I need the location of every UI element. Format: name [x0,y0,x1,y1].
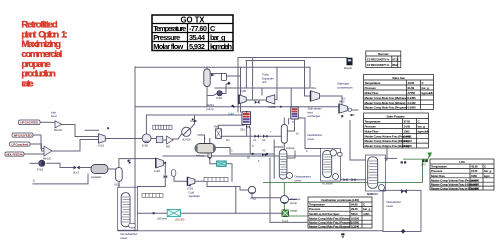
deethanizer condenser [330,150,336,156]
svg-text:C2 RECOVERY %: C2 RECOVERY % [367,63,390,67]
svg-text:Molar Flow: Molar Flow [431,174,446,178]
wire: depropanizer overhead riser [273,140,275,178]
svg-text:Filter: Filter [214,125,219,129]
propane to storage box (green) [282,210,289,217]
reflux pump [217,91,222,96]
svg-text:0.9466: 0.9466 [408,96,417,100]
svg-text:29.30: 29.30 [351,207,358,211]
debutanizer bottoms junction diamond [401,229,406,234]
reflux accumulator pot [221,74,226,81]
feed pump P-101 [39,160,45,166]
wire: left stabilizer feed line [33,174,88,184]
svg-text:1393: 1393 [404,130,410,134]
wire: cooler outlet train [151,138,157,140]
svg-text:Temperature: Temperature [431,165,447,169]
svg-text:530.0: 530.0 [351,212,358,216]
svg-text:Inlet sep: Inlet sep [196,154,205,158]
svg-text:Sales Gas: Sales Gas [392,76,405,80]
table: Sales Propane (right) [364,113,430,148]
svg-text:1060: 1060 [471,174,477,178]
svg-text:88.2: 88.2 [392,63,398,67]
svg-text:kgmole/h: kgmole/h [422,91,434,95]
letdown valve left [74,166,80,170]
wire: reflux pump discharge [222,84,229,94]
wire: feed pump to valve [47,163,74,167]
wire: bottom long product run [118,230,383,232]
svg-text:Temperature: Temperature [365,81,381,85]
molecular sieve filter [216,129,222,139]
tee block [156,136,162,142]
wire: cold separator vapour recycle riser [249,128,251,154]
sales gas compressor 1 [311,91,320,101]
C3 splitter column [368,157,378,189]
svg-text:61.69: 61.69 [408,86,415,90]
demethanizer tower column [121,193,130,227]
svg-text:14.00: 14.00 [404,125,411,129]
wire: reflux column bottom to main liquid header [206,86,208,107]
wire: booster compressor discharge to side exchanger [275,67,277,99]
svg-text:bar_g: bar_g [484,169,492,173]
air cooler strip [153,125,172,129]
svg-text:Deethanizer condensate (LiDI): Deethanizer condensate (LiDI) [321,198,358,202]
wire: condensate header to pump riser [235,187,237,214]
svg-text:C3 RECOVERY %: C3 RECOVERY % [367,57,390,61]
stream label box gas feed 3 [10,142,31,146]
stream label box gas feed 2 [12,133,33,137]
deethanizer transfer valve 2 [352,178,356,181]
depropanizer column [279,150,287,180]
wire: valve outlet to cold feed header [146,115,194,134]
svg-text:0.3240: 0.3240 [351,224,360,228]
svg-text:K-103: K-103 [187,187,194,191]
C3 splitter reboiler [379,185,385,191]
deethanizer reboiler [333,174,339,180]
LPG product arrow (green) [428,153,433,158]
wire: pump transfer (green) [289,215,309,217]
stream anchor below condensate table [341,233,344,235]
svg-text:VLV-100: VLV-100 [182,138,191,142]
svg-text:bar_g: bar_g [418,125,426,129]
table: recoveries (top right) [366,51,401,68]
svg-text:tower: tower [295,178,302,182]
LPG product flags (dark green) [422,160,425,163]
svg-text:LPG: LPG [459,160,465,164]
svg-text:Mix-101: Mix-101 [43,157,52,161]
reflux column (absorber) [204,69,210,87]
cold box LNG exchanger E-101 [242,112,251,125]
demethanizer reboiler pot [129,223,136,228]
svg-text:pump: pump [290,201,297,205]
svg-text:m3/h: m3/h [363,212,370,216]
svg-text:Mix-100: Mix-100 [54,128,63,132]
mixer MIX-101 [44,146,52,156]
valve at column top [211,74,215,77]
debutanizer sub-flowsheet box [383,190,421,231]
recycle compressor K-103 [187,177,195,186]
svg-text:K-101: K-101 [98,144,105,148]
wire: valve to flash drum [80,167,91,169]
wire: KO drum liquid to demethanizer [118,181,120,187]
valve on separator vapour line [262,153,267,157]
wire: mixer 1 outlet to recompressor [62,125,99,137]
wire: cold compressor discharge loop [138,163,166,187]
svg-text:tower: tower [121,236,128,240]
LTS exchanger (teal small) [217,161,227,166]
wire: LNG exchanger outlet long run [180,212,282,214]
wire: side exchanger outlet to deethanizer feed [299,118,321,149]
svg-text:pump: pump [207,107,214,111]
svg-text:storage: storage [290,209,298,213]
wire: feed box 2 to mixer 2 [33,135,44,149]
wire: LPG rundown link [385,157,397,159]
wire: inlet separator liquid to LTS exchanger [210,160,217,163]
svg-text:tower: tower [387,204,394,208]
svg-text:Cold: Cold [228,112,234,116]
svg-text:Cold sep: Cold sep [286,146,295,150]
svg-text:Splitter: Splitter [367,192,374,196]
svg-text:Molar flow: Molar flow [153,42,183,51]
svg-text:exchanger: exchanger [308,114,321,118]
stream label box NGL feed [19,120,41,125]
C3 splitter sub-flowsheet box [366,155,386,191]
svg-text:Pressure: Pressure [365,125,377,129]
wire: secondary header to sales gas compressor drop [246,61,311,97]
svg-text:feed: feed [51,114,57,118]
svg-text:NGL FEED IN: NGL FEED IN [6,152,22,156]
shaft valve [255,100,260,104]
wire: reflux pump loop [207,94,217,96]
recompressor K-101 [99,134,106,143]
table GO TX (stream conditions) [152,15,233,51]
wire: JT valve train to cold separator [221,135,282,137]
wire: sales propane rundown (green) [263,154,430,217]
wire: recycle compressor discharge [195,181,249,190]
svg-text:VLV-1: VLV-1 [73,171,80,175]
wire: mixer 3 to letdown valve [163,139,167,141]
svg-text:LP Cond feed: LP Cond feed [12,142,29,146]
svg-text:bar_g: bar_g [363,207,371,211]
svg-text:compressors: compressors [337,85,353,89]
wire: feed box 3 to mixer 2 [30,144,44,151]
wire: main liquid header [135,106,345,108]
wire: flash drum vapour [108,168,116,170]
svg-text:0.0060: 0.0060 [408,106,417,110]
svg-text:CB-1: CB-1 [240,128,246,132]
small knockout pot [171,170,175,177]
wire: C3 splitter overhead product [386,146,388,160]
junction dot [232,105,234,107]
svg-text:C: C [210,24,216,33]
wire: cold separator bottoms to depropanizer [283,143,285,151]
svg-text:Master Comp Mole Frac (Ethane): Master Comp Mole Frac (Ethane) [365,101,406,105]
wire: LPG rundown (green) [403,154,430,160]
cold separator V-100 [281,125,287,144]
wire: flowsheet boundary top from corner to reflux column [135,66,310,68]
side stream heat exchanger E-102 [291,107,298,119]
wire: recompressor to cooler [105,138,143,140]
svg-text:K-100B: K-100B [268,105,276,109]
wire: reflux drum outlet [226,75,240,77]
recycle operator R-1 (black icon) [347,58,352,65]
svg-text:MK-1: MK-1 [311,86,317,90]
svg-text:bar_g: bar_g [422,86,430,90]
wire: bypass line into recompressor suction [85,129,99,131]
svg-text:MIX: MIX [166,145,170,149]
depropanizer reboiler [287,173,293,179]
svg-text:35.44: 35.44 [189,33,206,42]
wire: flowsheet boundary left edge down to demethanizer [134,67,136,231]
svg-text:Sales Propane: Sales Propane [386,114,405,118]
junction diamond [227,82,230,85]
svg-text:V-101: V-101 [114,183,121,187]
table: deethanizer condensate (bottom centre) [308,197,372,228]
table: Sales Gas (right) [364,75,434,110]
svg-text:Master Comp Mole Frac (Methane: Master Comp Mole Frac (Methane) [365,96,408,100]
wire: column side draw to reflux pot [210,73,221,75]
LNG exchanger (teal) [167,209,180,216]
svg-text:MP GAS FEED: MP GAS FEED [14,133,33,137]
wire: inlet separator vapour line [215,148,274,155]
svg-text:E-100: E-100 [142,144,149,148]
wire: deethanizer to C3 splitter transfer [341,179,366,181]
stream label box gas feed 4 [5,152,24,156]
mixer MIX-102 [167,136,174,144]
wire: JT feed cross line [246,128,248,136]
wire: sales gas compressor discharge [350,109,358,111]
svg-text:0.0026: 0.0026 [404,144,413,148]
wire: cold separator feed riser [283,118,285,125]
svg-text:Recycle: Recycle [344,66,353,70]
table: LPG (bottom right) [430,159,494,190]
svg-text:5,932: 5,932 [189,42,205,51]
legend strip table [142,193,163,197]
svg-text:LPG: LPG [421,163,426,167]
turbo expander K-100 [239,95,246,104]
valve on recycle [164,175,168,178]
svg-text:K-102: K-102 [154,169,161,173]
svg-text:Pressure: Pressure [431,169,443,173]
svg-text:rate: rate [21,78,33,89]
svg-text:P-101: P-101 [37,168,44,172]
svg-text:43.95: 43.95 [471,165,478,169]
svg-text:Pressure: Pressure [365,86,377,90]
booster compressor K-100B [267,95,275,104]
wire: pump 2 discharge [289,199,297,201]
svg-text:0.1860: 0.1860 [471,186,480,190]
wire: propane rundown to pump (green) [283,183,285,196]
svg-text:HP GAS FEED: HP GAS FEED [20,121,39,125]
debutanizer feed valve [401,189,407,194]
inlet separator drum [196,144,215,154]
wire: expander feed [215,87,310,89]
svg-text:Std Idl Liq Vol Flow Spec: Std Idl Liq Vol Flow Spec [309,212,340,216]
sales gas compressor 2 [339,104,348,113]
control valve VLV-100 (circle with arrow) [182,127,191,136]
wire: KO drum vapour to cold compressor [119,159,156,168]
svg-text:kgmole/h: kgmole/h [418,130,430,134]
svg-text:97.3: 97.3 [392,57,398,61]
svg-text:Molar Flow: Molar Flow [365,91,380,95]
wire: cold separator overhead line [288,119,290,125]
svg-text:0.0143: 0.0143 [404,139,413,143]
svg-text:Master Comp Mole Frac (Propane: Master Comp Mole Frac (Propane) [365,106,408,110]
svg-text:FLOWSHT: FLOWSHT [322,182,334,186]
svg-text:Recover: Recover [378,52,389,56]
svg-text:bar_g: bar_g [210,33,226,42]
wire: recycle compressor feed [174,176,187,181]
wire: depropanizer reflux line [287,151,296,158]
cooler E-100 (circle) [142,134,151,143]
deethanizer transfer valve 1 [344,178,348,181]
propane pump P-103 [281,196,289,204]
svg-text:Molar Flow: Molar Flow [365,130,380,134]
demethanizer sub-flowsheet box [118,187,138,230]
svg-text:15.51: 15.51 [471,169,478,173]
svg-text:37.81: 37.81 [404,120,411,124]
wire: LTS exchanger outlet [226,164,232,182]
wire: demethanizer feed header [163,155,321,157]
wire: propane pump to storage (green) [283,204,285,211]
svg-text:K-100: K-100 [240,89,247,93]
svg-text:tower: tower [308,137,315,141]
deethanizer tower column [323,151,332,178]
svg-text:0.0442: 0.0442 [408,101,417,105]
wire: filter feed line [218,122,244,129]
deethanizer sub-flowsheet box [321,149,341,182]
svg-text:GO TX: GO TX [190,119,197,123]
svg-text:40.00: 40.00 [408,81,415,85]
wire: mixer 2 outlet to recompressor [52,140,99,152]
cold compressor K-102 [156,158,164,168]
svg-text:27450: 27450 [408,91,416,95]
svg-text:separator: separator [189,194,200,198]
KO vessel [116,168,123,182]
svg-text:To C3: To C3 [282,219,289,223]
wire: pump 1 discharge to pump 2 [252,194,281,198]
svg-text:LNG feed: LNG feed [157,217,167,221]
flash drum left [91,165,108,174]
svg-text:Pressure: Pressure [153,33,180,42]
svg-text:unit: unit [262,80,267,84]
wire: expander shaft [246,99,267,101]
svg-text:-77.60: -77.60 [189,24,207,33]
wire: side exchanger bottom drop [284,119,294,131]
svg-text:kgm: kgm [484,174,490,178]
svg-text:Master Comp Volume Frac (Ethan: Master Comp Volume Frac (Ethane) [365,139,409,143]
motor circle [348,108,351,111]
svg-text:Pressure: Pressure [309,207,321,211]
svg-text:separators: separators [91,175,102,179]
JT valve 1 [255,135,260,139]
wire: letdown valve riser [173,132,183,139]
striped label strip near recycle compressor [204,177,228,181]
JT valve 2 [263,135,268,139]
svg-text:Temperature: Temperature [153,24,186,33]
wire: inlet separator feed [198,135,205,144]
svg-text:Master Comp Mole Frac (Butane): Master Comp Mole Frac (Butane) [309,224,350,228]
svg-text:Temperature: Temperature [365,120,381,124]
wire: demethanizer bottoms line [138,212,168,214]
wire: sales gas compressor interstage [320,96,342,108]
condensate pump P-102 [248,186,255,193]
svg-text:94.85: 94.85 [351,203,358,207]
svg-text:P-102: P-102 [250,197,257,201]
wire: cold box cold stream drop [246,124,248,128]
wire: column top to turbo expander header [240,67,242,112]
wire: feed box 4 to mixer 2 [24,153,44,155]
wire: feed box 1 to mixer 1 [40,121,55,123]
svg-text:P-100: P-100 [216,96,223,100]
svg-text:Temperature: Temperature [309,203,325,207]
valve below cold box [246,125,250,128]
wire: cold box riser to top distribution header [238,58,347,113]
wire: deethanizer overhead riser [350,121,366,161]
svg-text:0.9831: 0.9831 [404,134,413,138]
wire: feed pump suction [30,162,38,164]
svg-text:kgmole/h: kgmole/h [210,42,232,51]
mixer MIX-100 [55,121,62,128]
svg-text:LNG-100: LNG-100 [175,218,185,222]
wire: depropanizer condenser link [274,146,283,148]
title: red headline text [21,20,67,90]
